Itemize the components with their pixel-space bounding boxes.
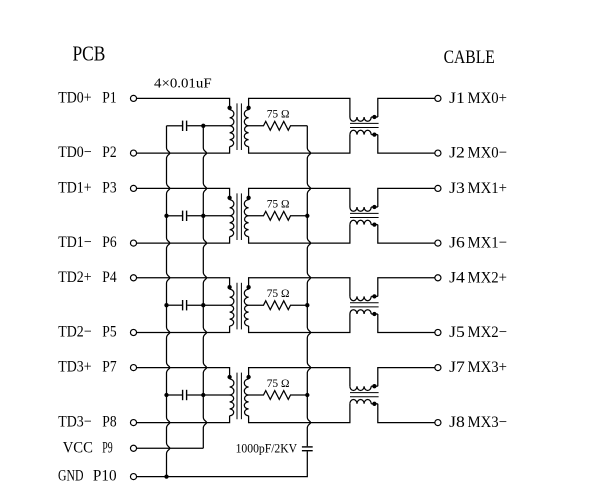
resistor R4 75ohm bbox=[249, 391, 308, 400]
terminal P10 bbox=[130, 474, 136, 480]
transformer T4 primary winding bbox=[230, 379, 234, 395]
terminal P1 bbox=[130, 95, 136, 101]
capacitor C3 0.01uF left lead bbox=[167, 304, 183, 306]
svg-text:TD0+: TD0+ bbox=[58, 89, 91, 106]
bus B VCC to center taps bbox=[203, 126, 206, 449]
terminal J8 bbox=[435, 420, 441, 426]
choke L4 bottom winding bbox=[350, 399, 371, 403]
choke L2 bottom phase dot bbox=[372, 222, 376, 226]
terminal J4 bbox=[435, 275, 441, 281]
svg-text:J6: J6 bbox=[449, 235, 465, 252]
transformer T2 secondary phase dot bbox=[246, 196, 250, 200]
svg-text:TD3+: TD3+ bbox=[58, 359, 91, 376]
transformer T1 primary winding bbox=[230, 110, 234, 126]
capacitor C4 0.01uF left lead bbox=[167, 394, 183, 396]
svg-text:GND: GND bbox=[58, 468, 84, 485]
junction dot bus A tap 4 bbox=[164, 393, 168, 397]
svg-text:75 Ω: 75 Ω bbox=[267, 107, 290, 121]
terminal P9 bbox=[130, 445, 136, 451]
wire choke L3 to J4 bbox=[378, 278, 435, 297]
svg-text:J3: J3 bbox=[449, 180, 465, 197]
junction dot bus A at GND row bbox=[164, 474, 168, 478]
capacitor C1 plates bbox=[182, 121, 184, 131]
svg-text:4×0.01uF: 4×0.01uF bbox=[154, 76, 212, 91]
transformer T2 primary phase dot bbox=[227, 196, 231, 200]
choke L3 bottom winding bbox=[350, 310, 371, 314]
svg-text:P7: P7 bbox=[102, 359, 116, 376]
wire choke L1 to J1 bbox=[378, 98, 435, 117]
svg-text:J1: J1 bbox=[449, 90, 465, 107]
svg-text:P9: P9 bbox=[102, 439, 112, 456]
wire T2 secondary top to choke L2 bbox=[249, 188, 350, 207]
choke L1 bottom winding bbox=[350, 130, 371, 134]
svg-text:J4: J4 bbox=[449, 269, 465, 286]
svg-text:MX3−: MX3− bbox=[468, 414, 508, 431]
junction dot bus B tap 1 bbox=[201, 124, 205, 128]
wire C4 to T4 center tap bbox=[187, 394, 229, 396]
choke L2 core bbox=[350, 212, 379, 214]
junction dot bus C resistor R2 bbox=[305, 214, 309, 218]
wire T3 secondary bottom to choke L3 bbox=[249, 314, 350, 333]
choke L1 bottom phase dot bbox=[372, 132, 376, 136]
wire T1 secondary top to choke L1 bbox=[249, 98, 350, 117]
capacitor C2 0.01uF left lead bbox=[167, 215, 183, 217]
wire P5 to T3 primary bottom bbox=[137, 326, 230, 333]
terminal J6 bbox=[435, 240, 441, 246]
transformer T1 primary phase dot bbox=[227, 106, 231, 110]
resistor R1 75ohm bbox=[249, 121, 308, 130]
terminal J3 bbox=[435, 185, 441, 191]
transformer T1 secondary winding bbox=[244, 110, 248, 126]
wire T1 secondary bottom to choke L1 bbox=[249, 135, 350, 154]
svg-text:CABLE: CABLE bbox=[444, 47, 495, 68]
wire T3 secondary top to choke L3 bbox=[249, 278, 350, 297]
svg-text:TD1−: TD1− bbox=[58, 234, 91, 251]
choke L1 core bbox=[350, 122, 379, 124]
svg-text:MX3+: MX3+ bbox=[468, 359, 508, 376]
wire choke L2 to J6 bbox=[378, 225, 435, 244]
svg-text:P5: P5 bbox=[102, 324, 116, 341]
choke L3 bottom phase dot bbox=[372, 312, 376, 316]
transformer T3 primary winding bbox=[230, 289, 234, 305]
junction dot bus C resistor R4 bbox=[305, 393, 309, 397]
transformer T4 core bbox=[236, 373, 238, 420]
choke L3 top phase dot bbox=[372, 294, 376, 298]
wire choke L4 to J8 bbox=[378, 404, 435, 423]
wire C2 to T2 center tap bbox=[187, 215, 229, 217]
choke L2 top winding bbox=[350, 207, 371, 211]
svg-text:P6: P6 bbox=[102, 234, 116, 251]
wire P2 to T1 primary bottom bbox=[137, 147, 230, 154]
wire T2 secondary bottom to choke L2 bbox=[249, 225, 350, 244]
svg-text:P3: P3 bbox=[102, 179, 116, 196]
choke L3 core bbox=[350, 302, 379, 304]
svg-text:MX0−: MX0− bbox=[468, 145, 508, 162]
svg-text:P10: P10 bbox=[93, 468, 117, 485]
svg-text:P4: P4 bbox=[102, 269, 116, 286]
capacitor C3 plates bbox=[182, 300, 184, 310]
transformer T3 primary phase dot bbox=[227, 285, 231, 289]
choke L1 top winding bbox=[350, 117, 371, 121]
terminal P3 bbox=[130, 185, 136, 191]
transformer T1 secondary phase dot bbox=[246, 106, 250, 110]
terminal P8 bbox=[130, 420, 136, 426]
svg-text:J5: J5 bbox=[449, 324, 465, 341]
terminal P7 bbox=[130, 365, 136, 371]
choke L4 bottom phase dot bbox=[372, 402, 376, 406]
svg-text:VCC: VCC bbox=[63, 439, 93, 456]
svg-text:TD2−: TD2− bbox=[58, 324, 91, 341]
capacitor C4 plates bbox=[182, 390, 184, 400]
terminal P5 bbox=[130, 329, 136, 335]
svg-text:MX1+: MX1+ bbox=[468, 180, 508, 197]
transformer T3 secondary phase dot bbox=[246, 285, 250, 289]
transformer T4 primary phase dot bbox=[227, 375, 231, 379]
svg-text:P2: P2 bbox=[102, 144, 116, 161]
wire C5 to GND row bbox=[137, 451, 308, 476]
terminal P2 bbox=[130, 150, 136, 156]
wire choke L1 to J2 bbox=[378, 135, 435, 154]
svg-text:MX0+: MX0+ bbox=[468, 90, 508, 107]
transformer T3 secondary winding bbox=[244, 289, 248, 305]
junction dot bus B tap 4 bbox=[201, 393, 205, 397]
svg-text:TD2+: TD2+ bbox=[58, 269, 91, 286]
terminal P6 bbox=[130, 240, 136, 246]
svg-text:J2: J2 bbox=[449, 145, 465, 162]
bus C resistor common bbox=[307, 126, 310, 447]
choke L2 top phase dot bbox=[372, 205, 376, 209]
wire choke L2 to J3 bbox=[378, 188, 435, 207]
wire T4 secondary top to choke L4 bbox=[249, 368, 350, 387]
svg-text:P8: P8 bbox=[102, 414, 116, 431]
wire choke L4 to J7 bbox=[378, 368, 435, 387]
wire P1 to T1 primary top bbox=[137, 98, 230, 109]
junction dot bus A tap 2 bbox=[164, 214, 168, 218]
wire P7 to T4 primary top bbox=[137, 368, 230, 379]
svg-text:MX2+: MX2+ bbox=[468, 269, 508, 286]
transformer T2 secondary winding bbox=[244, 200, 248, 216]
wire C3 to T3 center tap bbox=[187, 304, 229, 306]
svg-text:TD3−: TD3− bbox=[58, 414, 91, 431]
choke L1 top phase dot bbox=[372, 115, 376, 119]
wire P3 to T2 primary top bbox=[137, 188, 230, 199]
bus A ground side of caps bbox=[167, 126, 170, 477]
capacitor C2 plates bbox=[182, 211, 184, 221]
svg-text:MX1−: MX1− bbox=[468, 235, 508, 252]
svg-text:75 Ω: 75 Ω bbox=[267, 286, 290, 300]
wire P8 to T4 primary bottom bbox=[137, 416, 230, 423]
wire P4 to T3 primary top bbox=[137, 278, 230, 289]
terminal P4 bbox=[130, 275, 136, 281]
transformer T4 secondary winding bbox=[244, 379, 248, 395]
transformer T1 core bbox=[236, 103, 238, 150]
junction dot bus A tap 3 bbox=[164, 303, 168, 307]
transformer T2 primary winding bbox=[230, 200, 234, 216]
choke L2 bottom winding bbox=[350, 220, 371, 224]
resistor R2 75ohm bbox=[249, 211, 308, 220]
terminal J7 bbox=[435, 365, 441, 371]
resistor R3 75ohm bbox=[249, 301, 308, 310]
svg-text:TD0−: TD0− bbox=[58, 144, 91, 161]
terminal J5 bbox=[435, 329, 441, 335]
wire choke L3 to J5 bbox=[378, 314, 435, 333]
svg-text:75 Ω: 75 Ω bbox=[267, 376, 290, 390]
junction dot bus C resistor R3 bbox=[305, 303, 309, 307]
terminal J2 bbox=[435, 150, 441, 156]
choke L3 top winding bbox=[350, 296, 371, 300]
svg-text:TD1+: TD1+ bbox=[58, 179, 91, 196]
choke L4 top winding bbox=[350, 386, 371, 390]
terminal J1 bbox=[435, 95, 441, 101]
junction dot bus B tap 2 bbox=[201, 214, 205, 218]
choke L4 top phase dot bbox=[372, 384, 376, 388]
wire VCC P9 row bbox=[137, 447, 204, 449]
wire T4 secondary bottom to choke L4 bbox=[249, 404, 350, 423]
svg-text:P1: P1 bbox=[102, 89, 116, 106]
capacitor C5 1000pF/2KV plates bbox=[302, 446, 313, 448]
svg-text:PCB: PCB bbox=[73, 42, 106, 66]
junction dot bus B tap 3 bbox=[201, 303, 205, 307]
wire C1 to T1 center tap bbox=[187, 125, 229, 127]
svg-text:J7: J7 bbox=[449, 359, 465, 376]
capacitor C1 0.01uF left lead bbox=[167, 125, 183, 127]
transformer T4 secondary phase dot bbox=[246, 375, 250, 379]
svg-text:1000pF/2KV: 1000pF/2KV bbox=[236, 441, 298, 455]
transformer T2 core bbox=[236, 193, 238, 240]
wire P6 to T2 primary bottom bbox=[137, 237, 230, 244]
svg-text:J8: J8 bbox=[449, 414, 465, 431]
svg-text:75 Ω: 75 Ω bbox=[267, 197, 290, 211]
svg-text:MX2−: MX2− bbox=[468, 324, 508, 341]
choke L4 core bbox=[350, 392, 379, 394]
transformer T3 core bbox=[236, 283, 238, 330]
